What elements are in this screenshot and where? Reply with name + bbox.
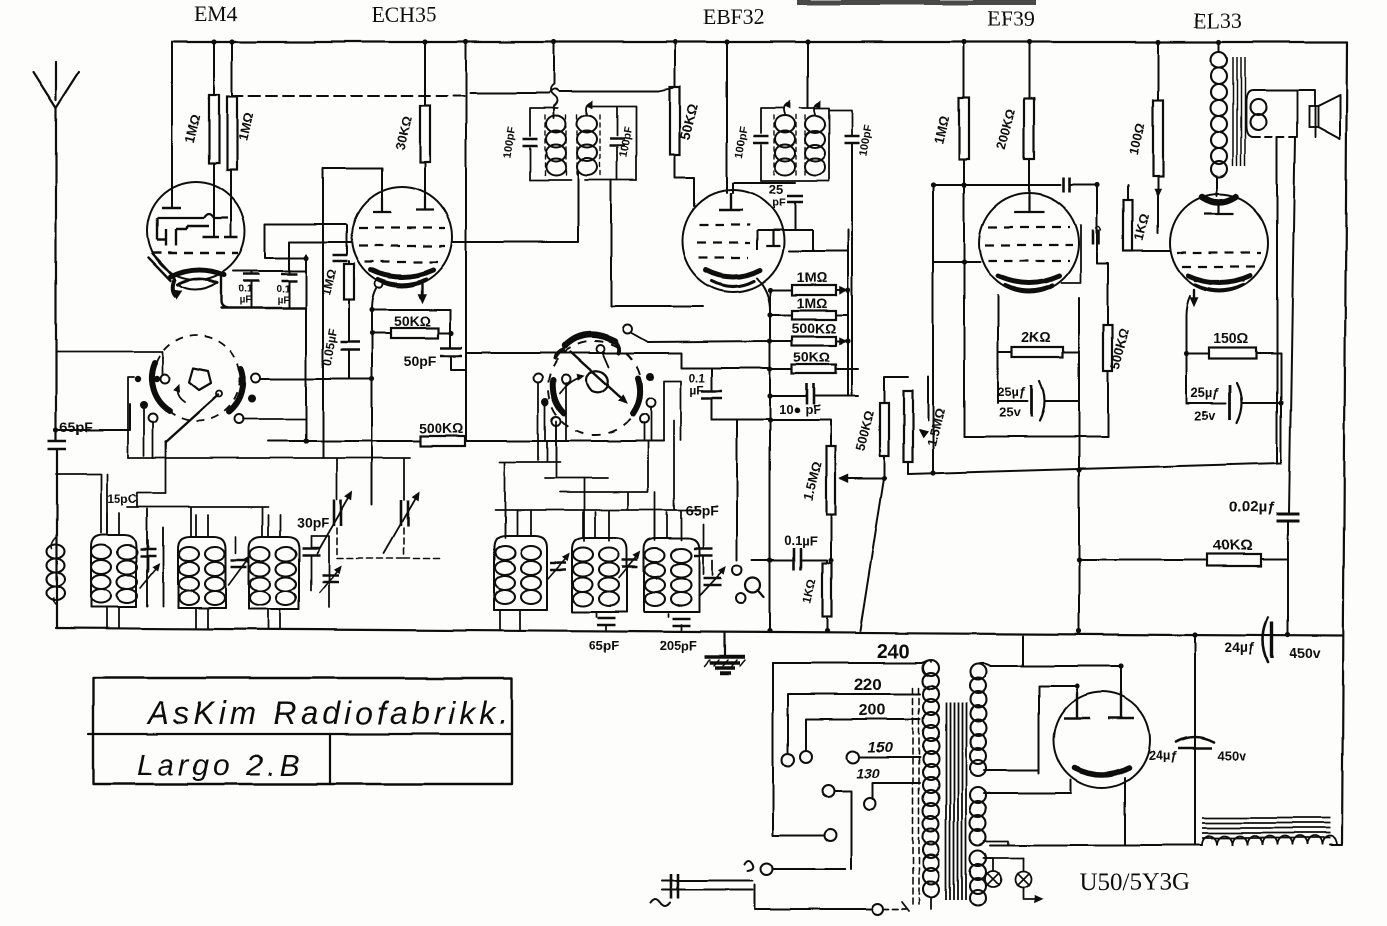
wire choke row [990,844,1342,846]
capacitor 100pF IF2 right [829,110,852,135]
EM4 anode bars [203,236,238,239]
svg-text:200: 200 [859,702,886,719]
capacitor 24uF top [1263,618,1268,662]
wire EM4 R1 top lead [213,42,215,95]
svg-text:U50/5Y3G: U50/5Y3G [1079,869,1190,896]
wire bank2 mesh [495,421,700,541]
svg-text:Largo 2.B: Largo 2.B [137,749,303,782]
coil group A [91,535,136,607]
coil group B [178,537,226,608]
switch2 dashed circle [548,341,642,435]
wire volume bottom [830,514,832,560]
wire 30K bottom lead [424,162,426,210]
wire 50pF bottom [451,356,466,370]
IF can 2 left bracket [761,108,784,181]
wire 1M EF39 bottom [963,159,965,185]
wire right frame [1342,42,1347,844]
resistor 100-ohm [1153,101,1163,176]
EL33 grid bar [1204,204,1234,214]
switch2 terminal a [534,374,543,383]
coil group C [249,537,299,609]
wire switch2 to AVC rows [466,353,770,368]
capacitor 0.1uF AVC [711,368,713,390]
switch2 terminal f [552,417,561,426]
wire tap 130 [873,783,920,798]
svg-text:ECH35: ECH35 [371,2,437,27]
svg-text:40KΩ: 40KΩ [1213,537,1253,554]
wire tap 220 [788,694,920,754]
EBF32 diode plate 2 [812,230,814,251]
wire 1K AF bottom [826,617,828,631]
wire rectifier cathode right [1124,778,1126,845]
wire 50K osc leads [372,332,450,334]
wire screen feed y185 [933,184,1060,186]
svg-text:130: 130 [856,765,880,781]
wire det AF line [752,559,792,561]
wire EL33 cathode left [1186,296,1190,403]
wire ECH35 grid lead [381,168,383,200]
wire 100ohm bottom [1157,176,1159,233]
switch2 left contact arc [553,380,564,413]
wire det row right [815,395,858,397]
svg-text:µF: µF [239,295,251,306]
output transformer primary [1218,42,1220,52]
wire padder line y379 [262,378,372,380]
gang link dashed [337,528,440,558]
svg-text:150Ω: 150Ω [1214,330,1249,346]
svg-text:50pF: 50pF [404,353,437,369]
switch1 terminal f [149,414,158,423]
svg-text:0.1µF: 0.1µF [784,533,818,548]
switch1 terminal g [235,415,244,424]
wire AVC long line [289,242,352,271]
wire AVC left bus segs [769,290,771,420]
voltage selector box [773,663,823,835]
antenna coil [47,544,65,558]
wire lamp2 top [984,857,1023,859]
capacitor 0.1uF AF [794,548,801,570]
wire IF1 to EBF32 grid [611,180,703,306]
scan artifact bar top-middle [797,0,1036,5]
wire EM4 R2 top lead [231,42,233,97]
transformer primary winding [923,660,939,676]
wire EF39 grid stub [933,261,980,263]
trimmer osc [703,578,721,585]
wire node x306 [305,255,307,441]
switch1 dashed circle [154,335,240,421]
trimmer cap BC [231,560,247,567]
svg-text:25v: 25v [999,405,1021,420]
wire y464 row [908,463,1281,474]
wire y437 row [964,436,1108,438]
EL33 top blob [1202,197,1236,203]
wire AVC cap bottom row [712,418,770,420]
svg-text:450v: 450v [1218,748,1248,763]
wire top HT bus [174,41,1347,43]
wire switch2 drops [538,383,651,460]
capacitor 24uF lower [1176,737,1214,742]
resistor 150-ohm [1209,348,1256,359]
resistor 50K-ohm ladder4 [792,365,836,374]
wire EM4 box link [265,224,347,258]
capacitor 0.05uF [348,300,350,341]
svg-text:240: 240 [876,641,909,663]
wire x737 drop [736,419,738,560]
wire IF2 top lead [807,42,809,108]
IF2 core dashes [773,115,775,177]
svg-text:EM4: EM4 [194,1,238,26]
resistor 30K-ohm [420,106,430,162]
svg-text:25: 25 [769,182,783,197]
ECH35 grid bars [373,196,434,212]
capacitor 25uF EF39 [998,400,1028,402]
pilot lamp 2 [1015,871,1031,887]
resistor 500K-ohm padder [420,436,465,446]
switch1 rotor [189,368,211,390]
wire bank1 bottoms [107,607,280,628]
wire osc line y310 [372,309,450,311]
wire EF39 cathode drop [1078,298,1080,631]
tube EM4 [147,182,245,280]
trimmer cap F [622,560,638,567]
resistor 500K-ohm AF [880,403,889,456]
svg-text:25µƒ: 25µƒ [1190,385,1219,400]
resistor 1K-ohm EL33grid [1124,200,1133,251]
wire rectifier cathode left [984,780,1071,793]
wire x933 drop [932,185,934,473]
wire 50K bottom to grid [675,155,694,206]
switch2 right bracket [664,381,681,441]
svg-text:µF: µF [277,295,289,306]
pilot lamp 1 [985,871,1001,887]
wire antenna lead [55,108,57,441]
EL33 cathode arrow [1193,290,1195,303]
antenna [33,62,79,108]
resistor 1M-ohm ladder1 [792,285,836,295]
wire EBF32 cathode to AVC bus [757,278,770,631]
switch2 arrow [560,377,582,393]
EM4 grid bar [162,207,181,210]
svg-text:25v: 25v [1194,408,1216,423]
capacitor 100pF IF2 left [754,136,769,143]
switch2 terminal d [647,399,656,408]
wire IF2 right drop [851,144,853,396]
wire EM4 R2 bottom lead [230,170,232,237]
ground symbol [724,633,726,655]
wire 200K drop [1028,42,1030,98]
pickup Q mark [746,578,761,593]
wire det 100pF row [772,395,806,397]
resistor 50K-ohm EBF32 [670,87,680,155]
wire EBF32 anode drop [726,42,728,193]
switch2 top terminal [597,345,605,353]
wire IF1 sec hook [586,103,590,114]
wire screen line y95 [232,95,470,97]
wire heater taps [984,841,1008,845]
transformer HT secondary [970,664,986,680]
wire 150ohm leads [1186,352,1281,354]
wire tap 200 [806,719,920,750]
IF2 primary coil [775,116,795,133]
wire tone wiper [927,377,929,420]
wire ECH35 cathode drop [372,288,377,505]
wire EM4 anode out [233,270,306,272]
wire y420 row [770,420,831,446]
capacitor 100pF IF1 right [610,139,625,146]
capacitor 65pF antenna [48,441,66,449]
switch2 terminal e [541,398,549,406]
switch1 lever [166,395,218,442]
capacitor 205pF bottom [672,619,690,626]
svg-text:EL33: EL33 [1194,8,1243,33]
EBF32 diode bracket [757,230,813,250]
wire diode out [789,250,848,252]
gang cap 1 [334,500,341,526]
wire 1K leads [1128,185,1170,251]
svg-text:pF: pF [772,197,786,209]
wire switch1 g drop [56,352,306,419]
svg-text:25µƒ: 25µƒ [997,384,1026,399]
EBF32 diode plate 1 [766,230,780,246]
wire antenna tap to switch [56,404,130,430]
svg-text:220: 220 [854,675,882,694]
svg-text:15pC: 15pC [107,492,137,506]
resistor 2K-ohm [1012,347,1063,357]
capacitor 0.1uF a [250,271,252,273]
wire x964 drop [963,185,965,437]
svg-text:50KΩ: 50KΩ [794,349,831,365]
wire tap 150 [859,756,920,758]
resistor 1M-ohm EF39 [959,98,969,159]
wire ladder2 leads [770,314,848,316]
wire 500K EF39 leads [1097,263,1108,437]
wire 500K AF leads [860,377,908,631]
potentiometer 1.5M-ohm tone [904,391,913,462]
gang cap 2 [401,500,408,526]
cap 65pF osc [702,524,704,547]
svg-text:500KΩ: 500KΩ [792,320,837,336]
capacitor EF39 coupling [1093,230,1099,245]
wire ladder3 leads [770,340,845,342]
IF1 secondary coil [577,116,597,133]
svg-text:205pF: 205pF [659,638,697,653]
terminal 150a [847,751,859,763]
svg-text:EF39: EF39 [987,6,1035,31]
wire 200K bottom [1028,159,1030,196]
wire tap 240 [773,662,922,664]
EM4 cathode dome [170,270,224,277]
wire 100ohm drop [1157,42,1159,101]
IF can 1 bottom bar [530,179,636,181]
switch1 terminal d [252,374,261,383]
wire EM4 cathode return [221,275,306,308]
wire HT drop x1195 [1194,635,1196,845]
wire IF1 top lead [553,42,555,84]
IF can 1 right bracket [591,106,636,180]
capacitor 0.1uF b [288,271,290,273]
transformer shield dashes [913,688,919,905]
wire EL33 box right [1280,353,1282,463]
IF can 2 right bracket [800,108,829,181]
terminal 130 [864,798,876,810]
rectifier anode left [1064,692,1090,718]
svg-text:1MΩ: 1MΩ [797,269,828,285]
transformer heater secondary 1 [970,787,986,803]
wire y185 right [1070,185,1097,263]
capacitor 100pF IF1 left [523,139,538,146]
transformer heater secondary 2 [970,850,986,866]
svg-text:30pF: 30pF [297,515,330,531]
wire bottom ground bus [56,628,1342,636]
svg-text:24µƒ: 24µƒ [1148,748,1177,763]
capacitor 25pF [733,183,795,193]
coil C bracket [311,536,329,607]
IF2 secondary coil [805,116,825,133]
EM4 cathode lead arrow [172,280,175,296]
svg-text:24µƒ: 24µƒ [1224,639,1256,655]
resistor 1K-ohm AF [823,563,832,617]
switch1 terminal c [240,375,246,381]
wire coupling to ECH35 grid [323,168,382,458]
tube rectifier [1054,692,1150,788]
switch1 terminal h [248,395,256,403]
capacitor 25uF EL33 [1186,402,1226,404]
switch2 rotor [587,371,609,393]
terminal 220 [782,754,794,766]
svg-text:EBF32: EBF32 [703,4,765,29]
svg-text:10● pF: 10● pF [779,402,821,417]
svg-text:450v: 450v [1289,645,1320,661]
junction dots [211,39,216,44]
wire AF line to 1K [802,560,827,563]
IF can 2 bottom bar [761,180,829,182]
switch1 terminal a [135,376,141,382]
switch2 lever [571,352,624,400]
resistor 500K-ohm EF39 [1104,325,1113,371]
capacitor screen bypass [1063,178,1069,193]
wire EF39 cathode box left [997,295,999,403]
svg-text:1MΩ: 1MΩ [797,295,828,311]
ECH35 anode arrow [421,284,423,300]
switch1 right contact arc [229,369,243,412]
speaker secondary coil [1250,99,1266,115]
mains terminal [873,904,884,915]
speaker field box [1246,90,1315,137]
EM4 target plate [157,214,228,218]
coil group D [494,536,547,610]
wire antenna to bus [56,449,58,628]
trimmer cap E [550,563,566,570]
switch2 terminal c [646,373,654,381]
EF39 screen bracket [1062,225,1081,283]
ECH35 cathode circle [375,280,383,288]
terminal 200 [800,751,812,763]
EF39 grid bar [1014,196,1044,212]
tall plates AB [147,509,163,606]
wire speaker line a [1276,137,1278,463]
wire 0.02uF bottom [1287,521,1289,635]
wire AVC rail [847,230,849,396]
svg-text:µF: µF [690,383,704,397]
switch1 left contact arc [152,363,170,411]
switch1 terminal b [154,376,160,382]
transformer core [946,703,966,900]
svg-text:500KΩ: 500KΩ [419,420,464,436]
IF1 core dashes [544,115,546,176]
wire HT top tap [978,636,1121,713]
coil group F [644,538,699,612]
svg-text:AsKim Radiofabrikk.: AsKim Radiofabrikk. [146,695,512,731]
resistor 1M-ohm ladder2 [792,311,836,320]
resistor 40K-ohm [1207,554,1261,566]
trimmer cap AB [140,549,156,556]
wire switch1 drops [144,409,166,493]
wire 500K row [268,440,664,442]
potentiometer 1.5M-ohm volume [827,446,836,514]
wire ladder4 leads [770,368,858,370]
IF1 primary coil [546,116,566,133]
wire volume wiper [840,474,848,481]
wire bank2 bottoms [500,560,712,631]
tube EL33 [1170,194,1268,292]
IF can 1 left bracket [530,108,558,180]
svg-text:2KΩ: 2KΩ [1021,329,1050,345]
capacitor 50pF [440,348,462,356]
pickup terminal 1 [732,565,742,575]
switch1 terminal e [140,401,148,409]
svg-text:150: 150 [867,739,893,756]
output transformer core [1233,57,1245,166]
switch1 arrow [178,387,185,402]
svg-text:65pF: 65pF [589,638,619,653]
IF2 hooks [784,103,788,114]
wire x450 drop [449,310,451,347]
switch2 terminal b [562,375,571,384]
selector links [822,785,834,797]
capacitor 100pF det [807,384,814,405]
resistor 500K-ohm ladder3 [792,337,836,346]
filter choke [1202,818,1330,838]
wire switch1 out right [261,378,306,380]
capacitor 65pF bottom [597,618,615,625]
svg-text:0.1: 0.1 [238,284,252,295]
svg-text:0.02µƒ: 0.02µƒ [1229,499,1275,516]
tube EBF32 [682,190,784,292]
wire mains to selector [755,885,872,909]
title box [93,678,512,784]
wire ladder1 leads [770,289,845,291]
switch2 top right terminal [624,325,633,334]
wire 40K row [1079,559,1288,560]
resistor 1M-ohm R2 [227,97,237,170]
svg-text:65pF: 65pF [60,419,93,435]
resistor 1M-ohm ECH35 grid [348,261,350,264]
mains plug [662,881,753,890]
wire HT mid tap [984,686,1077,773]
tube ECH35 [352,187,452,287]
wire 2K leads [998,351,1079,353]
EBF32 grid bar [719,193,743,210]
cap C right [302,548,320,555]
tube EF39 [979,193,1079,293]
wire 50K drop EBF32 [674,42,676,87]
pickup terminal 2 [736,593,746,603]
switch2 top contact arc [565,335,615,346]
wire 1M EF39 drop [963,42,965,98]
wire ECH35 anode drop [424,42,426,106]
wire IF1 to ECH35 inj [452,172,578,242]
wire tone bottom [907,462,909,474]
